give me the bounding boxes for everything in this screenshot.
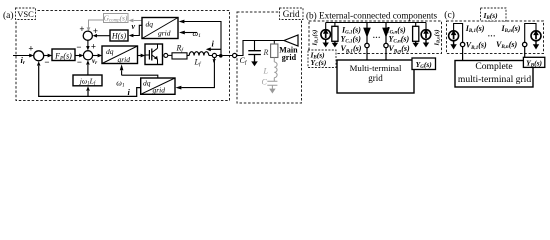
svg-text:···: ··· [488,32,496,41]
svg-text:−: − [76,42,81,52]
svg-text:grid: grid [153,86,166,95]
svg-text:YB(s): YB(s) [526,58,542,68]
svg-text:−: − [77,57,82,67]
svg-text:v: v [132,22,136,31]
svg-text:IB,1(s): IB,1(s) [312,30,319,47]
svg-text:multi-terminal grid: multi-terminal grid [458,74,531,85]
svg-text:grid: grid [282,53,297,62]
svg-text:+: + [28,43,33,53]
svg-text:YC(s): YC(s) [311,58,327,68]
svg-text:VSC: VSC [17,9,34,19]
svg-text:H(s): H(s) [111,32,127,41]
svg-text:grid: grid [368,73,383,83]
svg-text:Multi-terminal: Multi-terminal [350,63,402,73]
svg-text:+: + [79,24,84,34]
svg-text:dq: dq [146,20,154,29]
svg-text:R: R [263,48,269,57]
svg-text:C: C [262,78,268,87]
svg-text:−: − [44,57,49,67]
svg-text:IB(s): IB(s) [483,11,499,21]
svg-text:YG(s): YG(s) [416,60,433,70]
svg-text:(b) External-connected compone: (b) External-connected components [306,10,438,20]
svg-text:dq: dq [106,47,114,56]
svg-text:Grid: Grid [283,9,300,19]
svg-text:···: ··· [373,33,381,42]
svg-text:dq: dq [143,79,151,88]
svg-text:Complete: Complete [475,61,512,72]
svg-text:IB,n(s): IB,n(s) [434,29,441,46]
svg-text:L: L [263,66,269,75]
svg-text:grid: grid [158,29,171,38]
svg-text:grid: grid [118,55,131,64]
svg-text:FP(s): FP(s) [54,51,72,61]
svg-text:(c): (c) [444,10,455,21]
svg-text:+: + [91,41,96,51]
svg-text:(a): (a) [3,10,14,21]
svg-text:+: + [93,26,98,36]
